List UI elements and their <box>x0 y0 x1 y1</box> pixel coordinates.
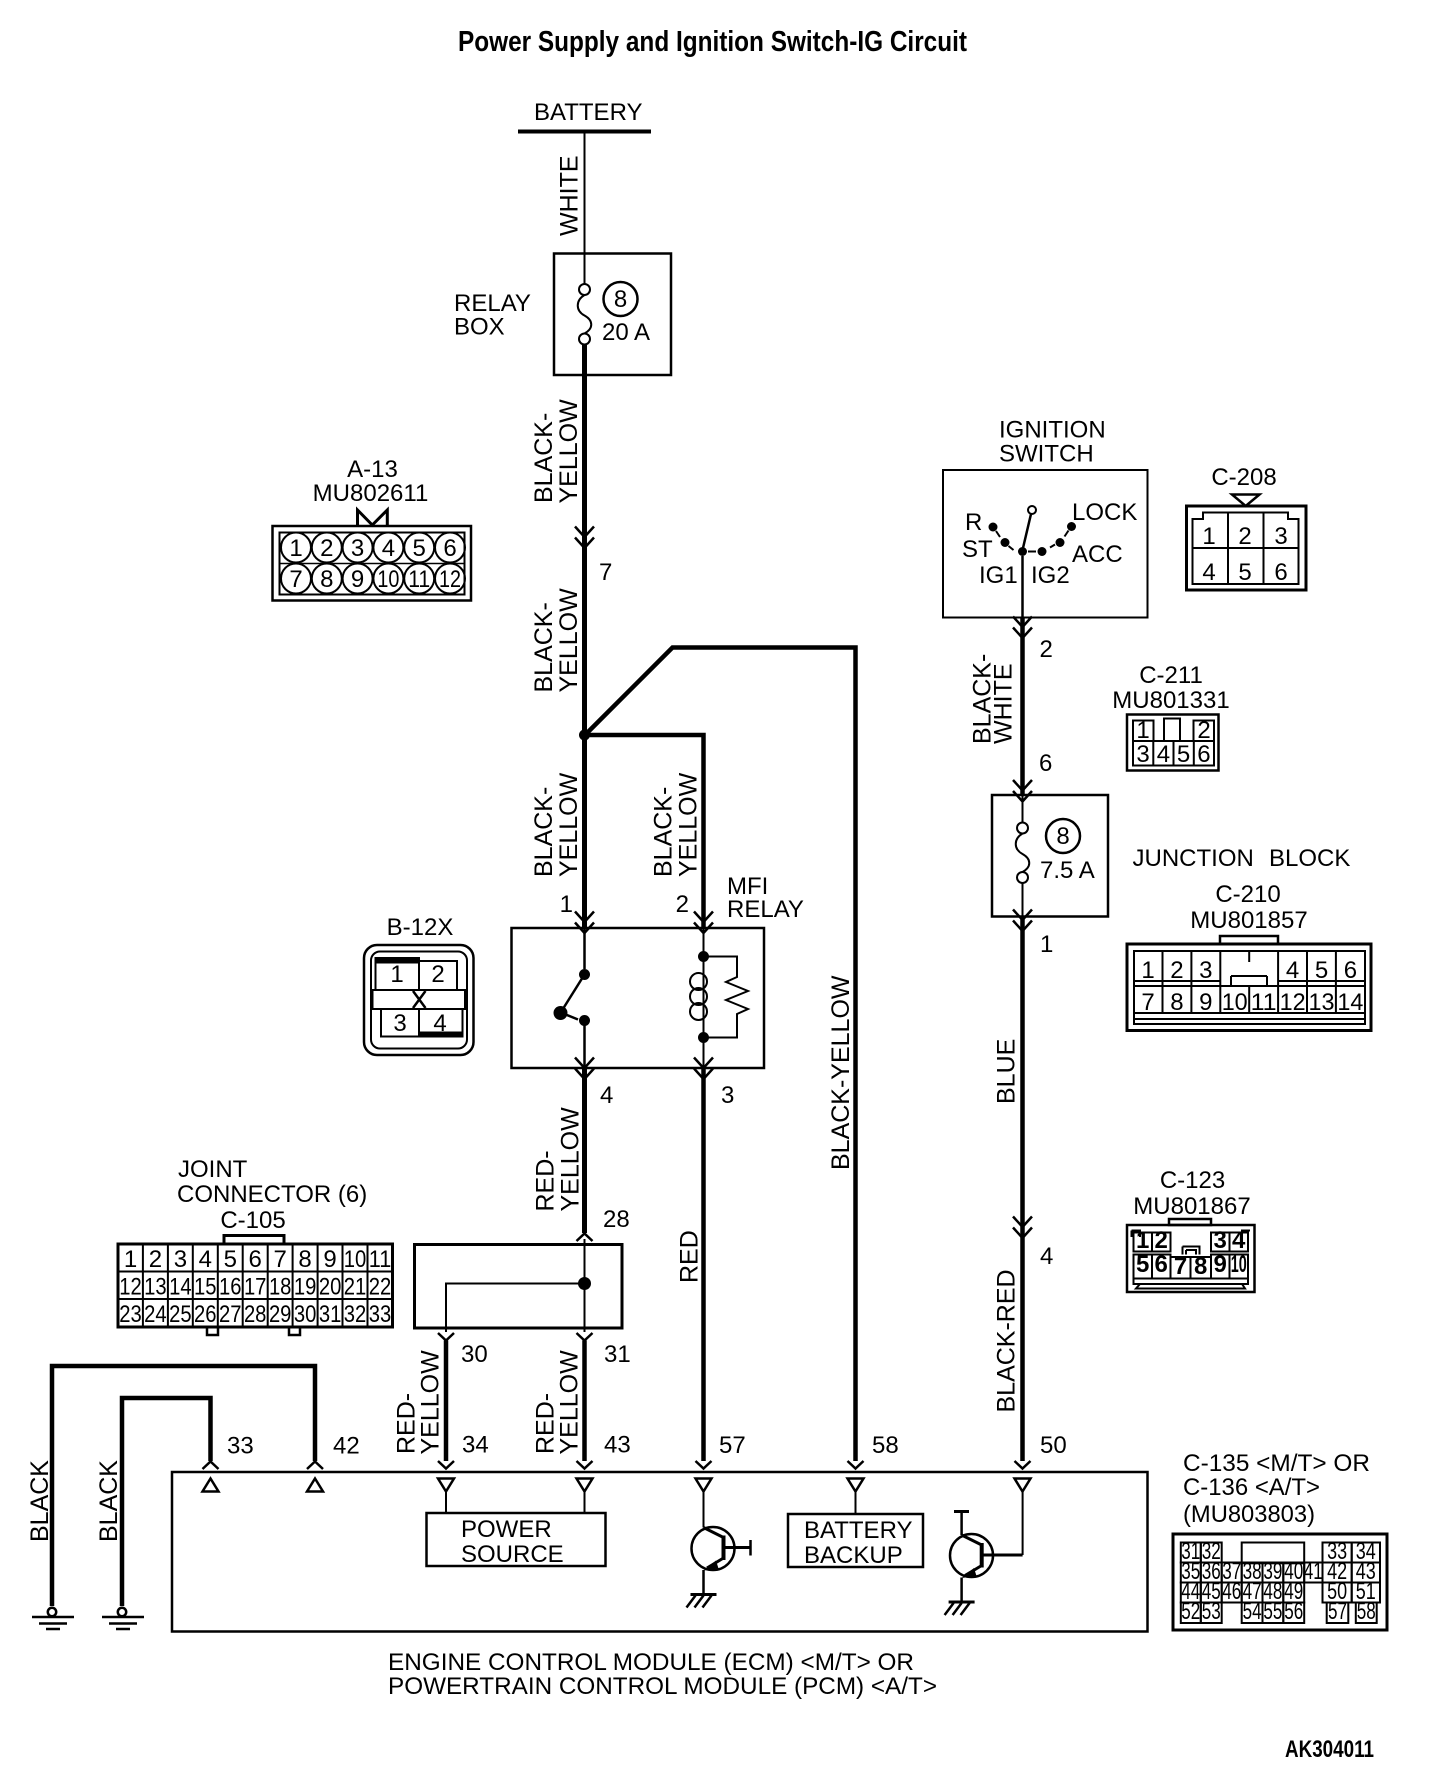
svg-text:BLACK-RED: BLACK-RED <box>993 1269 1021 1412</box>
svg-text:13: 13 <box>1309 989 1335 1016</box>
svg-text:3: 3 <box>351 535 364 562</box>
svg-text:2: 2 <box>431 961 444 988</box>
svg-text:9: 9 <box>1199 989 1212 1016</box>
svg-text:4: 4 <box>1202 559 1215 586</box>
svg-text:4: 4 <box>1157 741 1170 768</box>
svg-text:9: 9 <box>323 1246 336 1273</box>
svg-text:13: 13 <box>144 1274 167 1301</box>
wire diagonal branch to 58 <box>585 648 856 1462</box>
connector C-211 <box>1112 662 1229 771</box>
svg-text:2: 2 <box>320 535 333 562</box>
svg-text:29: 29 <box>269 1301 292 1328</box>
svg-text:15: 15 <box>194 1274 217 1301</box>
relay coil <box>690 928 707 1068</box>
svg-text:12: 12 <box>1280 989 1306 1016</box>
wire black ground2 to pin33 <box>122 1398 211 1606</box>
svg-text:C-211: C-211 <box>1139 662 1203 689</box>
wire black ground1 to pin42 <box>52 1366 315 1606</box>
svg-text:57: 57 <box>719 1432 746 1459</box>
svg-text:10: 10 <box>344 1246 367 1273</box>
svg-text:33: 33 <box>369 1301 392 1328</box>
exit arrows <box>575 1058 594 1080</box>
svg-text:54: 54 <box>1243 1598 1262 1625</box>
transistor Q1 <box>687 1492 751 1608</box>
svg-text:POWERTRAIN CONTROL MODULE (PCM: POWERTRAIN CONTROL MODULE (PCM) <A/T> <box>388 1673 937 1700</box>
svg-text:BLUE: BLUE <box>993 1039 1021 1104</box>
svg-text:MU801857: MU801857 <box>1190 907 1307 934</box>
svg-text:4: 4 <box>433 1010 446 1037</box>
svg-text:6: 6 <box>1197 741 1210 768</box>
svg-text:26: 26 <box>194 1301 217 1328</box>
battery backup box <box>855 1492 857 1514</box>
svg-text:6: 6 <box>249 1246 262 1273</box>
svg-text:31: 31 <box>319 1301 342 1328</box>
svg-text:C-208: C-208 <box>1211 464 1276 491</box>
svg-text:YELLOW: YELLOW <box>555 588 583 693</box>
svg-text:14: 14 <box>1337 989 1363 1016</box>
wire black-yellow: relay box to junction <box>582 344 587 737</box>
svg-text:A-13: A-13 <box>347 456 398 483</box>
svg-text:11: 11 <box>1251 989 1277 1016</box>
svg-text:ST: ST <box>962 536 993 563</box>
svg-text:5: 5 <box>1238 559 1251 586</box>
ECM box <box>172 1472 1148 1632</box>
svg-text:5: 5 <box>413 535 426 562</box>
svg-text:3: 3 <box>393 1010 406 1037</box>
svg-text:25: 25 <box>169 1301 192 1328</box>
svg-text:42: 42 <box>333 1433 360 1460</box>
svg-text:IG2: IG2 <box>1031 562 1070 589</box>
svg-text:53: 53 <box>1202 1598 1221 1625</box>
svg-text:30: 30 <box>461 1341 488 1368</box>
svg-text:3: 3 <box>1136 741 1149 768</box>
svg-text:1: 1 <box>289 535 302 562</box>
svg-text:BLACK-: BLACK- <box>530 413 558 503</box>
connector C-135 <box>1173 1450 1387 1630</box>
svg-text:10: 10 <box>1222 989 1248 1016</box>
svg-text:1: 1 <box>1141 957 1154 984</box>
svg-text:BOX: BOX <box>454 314 505 341</box>
svg-text:5: 5 <box>1315 957 1328 984</box>
svg-text:SWITCH: SWITCH <box>999 441 1094 468</box>
svg-text:1: 1 <box>1136 717 1149 744</box>
svg-text:14: 14 <box>169 1274 192 1301</box>
svg-text:ACC: ACC <box>1072 541 1123 568</box>
svg-text:C-210: C-210 <box>1215 881 1280 908</box>
svg-text:58: 58 <box>1357 1598 1376 1625</box>
svg-text:2: 2 <box>149 1246 162 1273</box>
svg-text:8: 8 <box>1194 1253 1207 1280</box>
svg-text:10: 10 <box>1231 1251 1247 1278</box>
svg-text:YELLOW: YELLOW <box>556 1350 584 1455</box>
svg-text:AK304011: AK304011 <box>1285 1736 1374 1763</box>
svg-text:Power Supply and Ignition Swit: Power Supply and Ignition Switch-IG Circ… <box>458 26 967 58</box>
connector C-210 <box>1127 881 1371 1031</box>
svg-text:BLACK-: BLACK- <box>650 787 678 877</box>
svg-text:27: 27 <box>219 1301 242 1328</box>
svg-text:9: 9 <box>351 566 364 593</box>
svg-text:11: 11 <box>369 1246 392 1273</box>
joint connector wiring box <box>415 1245 623 1329</box>
svg-text:17: 17 <box>244 1274 267 1301</box>
svg-text:YELLOW: YELLOW <box>555 772 583 877</box>
power source box <box>446 1492 585 1513</box>
svg-text:BLACK-YELLOW: BLACK-YELLOW <box>827 975 855 1170</box>
wire inside joint box <box>446 1239 585 1332</box>
wire white: battery to relay box <box>584 133 586 284</box>
svg-text:7: 7 <box>599 559 612 586</box>
svg-text:5: 5 <box>1136 1251 1149 1278</box>
svg-text:1: 1 <box>1040 931 1053 958</box>
ground 2 <box>102 1608 144 1629</box>
svg-text:MU801867: MU801867 <box>1133 1193 1250 1220</box>
svg-text:4: 4 <box>1040 1243 1053 1270</box>
svg-text:28: 28 <box>603 1206 630 1233</box>
wire red-yellow pin4 to 28 <box>582 1068 587 1233</box>
svg-text:ENGINE CONTROL MODULE (ECM) <M: ENGINE CONTROL MODULE (ECM) <M/T> OR <box>388 1649 914 1676</box>
svg-text:12: 12 <box>439 566 461 593</box>
svg-text:55: 55 <box>1263 1598 1282 1625</box>
svg-text:2: 2 <box>1197 717 1210 744</box>
node dot <box>578 1277 591 1290</box>
svg-text:5: 5 <box>224 1246 237 1273</box>
svg-text:(MU803803): (MU803803) <box>1183 1501 1315 1528</box>
svg-text:CONNECTOR (6): CONNECTOR (6) <box>177 1181 367 1208</box>
svg-text:4: 4 <box>199 1246 212 1273</box>
svg-text:B-12X: B-12X <box>387 914 454 941</box>
svg-text:7.5 A: 7.5 A <box>1040 857 1095 884</box>
svg-text:18: 18 <box>269 1274 292 1301</box>
relay box <box>554 254 671 376</box>
svg-text:4: 4 <box>600 1082 613 1109</box>
svg-text:4: 4 <box>1286 957 1299 984</box>
svg-text:16: 16 <box>219 1274 242 1301</box>
svg-text:22: 22 <box>369 1274 392 1301</box>
svg-text:RED: RED <box>676 1230 704 1283</box>
svg-text:C-123: C-123 <box>1160 1167 1225 1194</box>
svg-text:3: 3 <box>1199 957 1212 984</box>
svg-text:WHITE: WHITE <box>556 155 584 236</box>
svg-text:34: 34 <box>462 1432 489 1459</box>
svg-text:MU802611: MU802611 <box>313 480 429 507</box>
svg-text:2: 2 <box>1155 1227 1168 1254</box>
svg-text:7: 7 <box>289 566 302 593</box>
junction block fuse box <box>1013 780 1032 802</box>
svg-text:1: 1 <box>1202 523 1215 550</box>
fuse 20A <box>578 284 592 345</box>
svg-text:33: 33 <box>227 1433 254 1460</box>
svg-text:6: 6 <box>1274 559 1287 586</box>
svg-text:2: 2 <box>1238 523 1251 550</box>
ignition switch <box>943 417 1148 618</box>
fuse number 8 <box>604 282 638 316</box>
svg-text:56: 56 <box>1284 1598 1303 1625</box>
svg-text:LOCK: LOCK <box>1072 499 1137 526</box>
svg-text:3: 3 <box>174 1246 187 1273</box>
wire red from MFI pin3 to ECM 57 <box>701 1068 706 1461</box>
svg-text:30: 30 <box>294 1301 317 1328</box>
svg-text:24: 24 <box>144 1301 167 1328</box>
svg-text:BLACK: BLACK <box>26 1460 54 1542</box>
svg-text:YELLOW: YELLOW <box>675 772 703 877</box>
svg-text:IGNITION: IGNITION <box>999 417 1106 444</box>
svg-text:C-136 <A/T>: C-136 <A/T> <box>1183 1474 1320 1501</box>
svg-text:7: 7 <box>274 1246 287 1273</box>
connector C-123 <box>1127 1167 1255 1292</box>
svg-text:8: 8 <box>298 1246 311 1273</box>
ground 1 <box>32 1608 74 1629</box>
svg-text:8: 8 <box>1170 989 1183 1016</box>
svg-text:7: 7 <box>1174 1253 1187 1280</box>
connector A-13 <box>273 456 472 601</box>
svg-text:9: 9 <box>1214 1251 1227 1278</box>
svg-text:23: 23 <box>119 1301 142 1328</box>
svg-text:41: 41 <box>1304 1558 1323 1585</box>
svg-text:BATTERY: BATTERY <box>804 1517 912 1544</box>
svg-text:BLACK-: BLACK- <box>530 787 558 877</box>
svg-text:BATTERY: BATTERY <box>534 99 642 126</box>
svg-text:1: 1 <box>1136 1227 1149 1254</box>
connector C-208 <box>1187 464 1307 590</box>
svg-text:3: 3 <box>1274 523 1287 550</box>
svg-text:20: 20 <box>319 1274 342 1301</box>
ECM pin triangles <box>203 1479 219 1492</box>
connector B-12X <box>364 914 474 1055</box>
svg-text:BLACK-: BLACK- <box>530 602 558 692</box>
svg-text:2: 2 <box>1170 957 1183 984</box>
wire black-white <box>1020 618 1025 796</box>
svg-text:21: 21 <box>344 1274 367 1301</box>
svg-text:3: 3 <box>1214 1227 1227 1254</box>
wire branch to MFI pin 2 <box>585 735 704 928</box>
svg-text:2: 2 <box>676 891 689 918</box>
svg-text:BACKUP: BACKUP <box>804 1542 903 1569</box>
svg-text:YELLOW: YELLOW <box>417 1350 445 1455</box>
MFI relay U1 <box>512 928 765 1068</box>
joint connector C-105 <box>118 1156 393 1335</box>
svg-text:31: 31 <box>604 1341 631 1368</box>
svg-text:1: 1 <box>124 1246 137 1273</box>
svg-text:28: 28 <box>244 1301 267 1328</box>
svg-text:1: 1 <box>560 891 573 918</box>
relay switch contact <box>561 928 585 1068</box>
svg-text:RED-: RED- <box>532 1150 560 1211</box>
wire to MFI pin 1 <box>582 737 587 928</box>
svg-text:10: 10 <box>377 566 399 593</box>
svg-text:4: 4 <box>382 535 395 562</box>
svg-text:JUNCTION: JUNCTION <box>1133 845 1254 872</box>
svg-text:3: 3 <box>721 1082 734 1109</box>
svg-text:RELAY: RELAY <box>727 896 804 923</box>
svg-text:2: 2 <box>1040 636 1053 663</box>
node junction dot <box>579 730 590 741</box>
wire 30 <box>438 1333 454 1341</box>
svg-text:WHITE: WHITE <box>990 663 1018 744</box>
svg-text:50: 50 <box>1040 1432 1067 1459</box>
svg-text:52: 52 <box>1181 1598 1200 1625</box>
svg-text:57: 57 <box>1328 1598 1347 1625</box>
svg-text:YELLOW: YELLOW <box>555 399 583 504</box>
svg-text:6: 6 <box>1039 750 1052 777</box>
svg-text:43: 43 <box>604 1432 631 1459</box>
svg-text:32: 32 <box>344 1301 367 1328</box>
relay resistor <box>704 957 749 1038</box>
wire 31 <box>577 1333 593 1341</box>
svg-text:58: 58 <box>872 1432 899 1459</box>
svg-text:6: 6 <box>1344 957 1357 984</box>
transistor Q2 <box>945 1492 1023 1615</box>
svg-text:6: 6 <box>1155 1251 1168 1278</box>
svg-text:19: 19 <box>294 1274 317 1301</box>
svg-text:4: 4 <box>1232 1227 1246 1254</box>
svg-text:R: R <box>965 509 982 536</box>
svg-text:C-105: C-105 <box>220 1207 285 1234</box>
svg-text:POWER: POWER <box>461 1516 552 1543</box>
svg-text:IG1: IG1 <box>979 562 1018 589</box>
wire blue <box>1020 917 1025 1462</box>
svg-text:12: 12 <box>119 1274 142 1301</box>
svg-text:SOURCE: SOURCE <box>461 1541 564 1568</box>
svg-text:5: 5 <box>1177 741 1190 768</box>
svg-text:8: 8 <box>320 566 333 593</box>
svg-text:YELLOW: YELLOW <box>557 1107 585 1212</box>
svg-text:20 A: 20 A <box>602 319 650 346</box>
svg-text:BLOCK: BLOCK <box>1269 845 1350 872</box>
svg-text:11: 11 <box>408 566 430 593</box>
svg-text:7: 7 <box>1141 989 1154 1016</box>
svg-text:JOINT: JOINT <box>178 1156 248 1183</box>
svg-text:8: 8 <box>1056 823 1069 850</box>
svg-text:8: 8 <box>614 286 627 313</box>
svg-text:BLACK: BLACK <box>95 1460 123 1542</box>
svg-text:1: 1 <box>390 961 403 988</box>
svg-text:6: 6 <box>443 535 456 562</box>
svg-text:C-135 <M/T> OR: C-135 <M/T> OR <box>1183 1450 1370 1477</box>
svg-text:46: 46 <box>1222 1578 1241 1605</box>
svg-text:MU801331: MU801331 <box>1112 687 1229 714</box>
